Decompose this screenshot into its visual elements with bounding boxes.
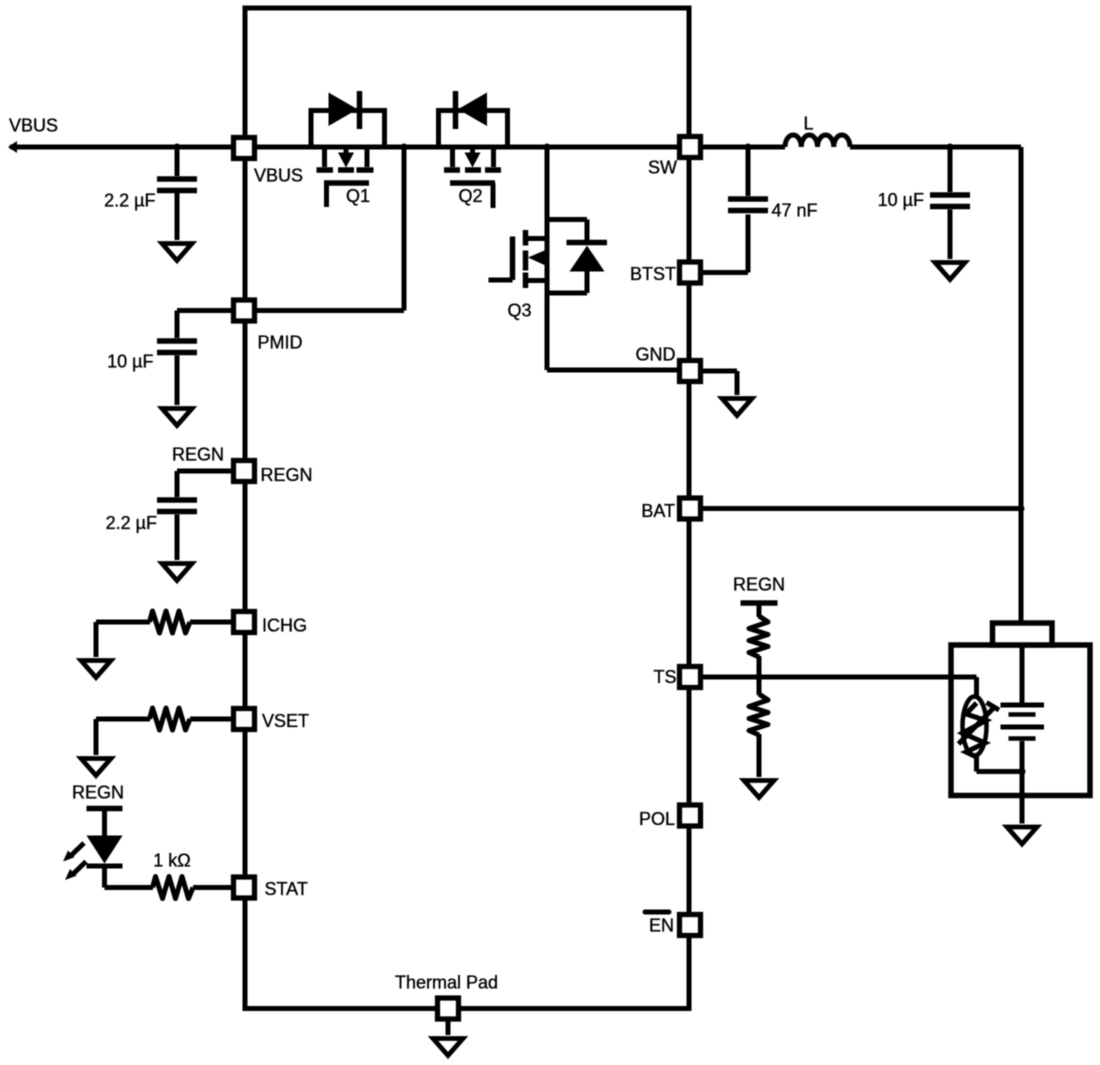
svg-text:GND: GND bbox=[636, 345, 676, 365]
svg-text:REGN: REGN bbox=[261, 465, 313, 485]
svg-text:10 µF: 10 µF bbox=[107, 352, 153, 372]
svg-text:ICHG: ICHG bbox=[262, 616, 307, 636]
svg-text:REGN: REGN bbox=[172, 445, 224, 465]
svg-text:EN: EN bbox=[649, 916, 674, 936]
svg-text:2.2 µF: 2.2 µF bbox=[106, 513, 157, 533]
svg-text:TS: TS bbox=[653, 667, 676, 687]
svg-text:VBUS: VBUS bbox=[9, 116, 58, 136]
svg-text:L: L bbox=[803, 114, 813, 134]
svg-text:STAT: STAT bbox=[265, 879, 308, 899]
svg-text:VBUS: VBUS bbox=[254, 166, 303, 186]
svg-text:BAT: BAT bbox=[641, 501, 675, 521]
svg-text:Q1: Q1 bbox=[346, 186, 370, 206]
svg-text:POL: POL bbox=[639, 809, 675, 829]
svg-text:Thermal Pad: Thermal Pad bbox=[395, 973, 498, 993]
svg-text:REGN: REGN bbox=[733, 575, 785, 595]
svg-text:10 µF: 10 µF bbox=[878, 190, 924, 210]
svg-text:Q3: Q3 bbox=[507, 301, 531, 321]
svg-text:2.2 µF: 2.2 µF bbox=[104, 191, 155, 211]
svg-text:BTST: BTST bbox=[630, 264, 676, 284]
svg-text:PMID: PMID bbox=[258, 333, 303, 353]
svg-text:47 nF: 47 nF bbox=[772, 201, 818, 221]
svg-text:Q2: Q2 bbox=[458, 186, 482, 206]
svg-text:REGN: REGN bbox=[72, 783, 124, 803]
svg-text:1 kΩ: 1 kΩ bbox=[153, 851, 190, 871]
svg-text:VSET: VSET bbox=[262, 711, 309, 731]
svg-text:SW: SW bbox=[648, 158, 677, 178]
